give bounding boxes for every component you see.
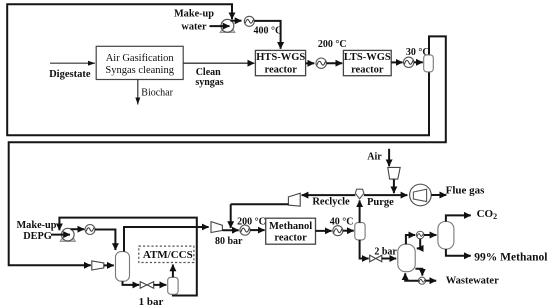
wire: make-up water inlet arrow into pump: [210, 25, 230, 27]
wire: pump outlet to heater: [231, 20, 242, 22]
svg-text:syngas: syngas: [195, 77, 223, 88]
wire: E5 to methanol reactor: [250, 229, 265, 231]
flash drum V1 (methanol separator): [355, 223, 365, 240]
distillation column C2: [398, 244, 415, 272]
svg-text:Wastewater: Wastewater: [446, 276, 499, 287]
wire: make-up DEPG inlet arrow into pump: [51, 234, 70, 236]
svg-text:400 °C: 400 °C: [254, 26, 283, 37]
flash drum V0 (water knockout): [424, 55, 434, 72]
heat exchanger E8 (reboiler): [418, 277, 425, 284]
wire: steam line into HTS reactor top: [254, 21, 280, 49]
wire: recycle junction arrow down: [230, 204, 232, 228]
svg-text:Reclycle: Reclycle: [312, 197, 350, 208]
svg-text:Make-up: Make-up: [174, 9, 214, 20]
wire: K2 outlet to exchanger E5: [222, 229, 238, 231]
svg-text:40 °C: 40 °C: [330, 217, 354, 228]
label: 40 C: [330, 217, 354, 228]
svg-text:ATM/CCS: ATM/CCS: [143, 249, 193, 261]
compressor K2 (80 bar): [211, 222, 222, 233]
svg-text:water: water: [181, 21, 207, 32]
wire: reboiler vapor return up into C2 bottom: [405, 273, 418, 281]
distillation column C3: [438, 222, 454, 250]
label: Biochar: [141, 88, 173, 99]
label: 2 bar: [374, 246, 397, 257]
absorber column C1: [116, 252, 130, 282]
heat exchanger E2 (200 C cooler): [316, 58, 326, 68]
wire: C2 overhead to condenser E7: [406, 235, 415, 244]
label: 80 bar: [215, 236, 243, 247]
svg-text:Purge: Purge: [367, 197, 394, 208]
wire: absorber bottoms to valve VL1: [123, 281, 140, 285]
wire: E3 to flash drum V0: [414, 61, 423, 63]
svg-text:200 °C: 200 °C: [318, 39, 347, 50]
wire: recycle line back to junction: [231, 203, 289, 205]
label: 30 C: [406, 47, 430, 58]
label: Flue gas: [446, 185, 486, 197]
pump P1 (make-up water pump): [220, 19, 235, 32]
wire: flue gas outlet: [431, 194, 446, 196]
wire: reactor outlet to cooler E6: [316, 230, 332, 232]
wire: LTS outlet to cooler E3: [391, 61, 402, 63]
wire: V2 overhead CO2 to ATM/CCS: [172, 265, 174, 278]
svg-text:DEPG: DEPG: [23, 231, 52, 242]
wire: valve VL1 to flash drum V2: [154, 284, 167, 286]
heat exchanger E7 (condenser): [416, 231, 424, 239]
wire: valve VL2 to distillation column C2: [382, 258, 397, 260]
svg-text:Clean: Clean: [196, 67, 221, 78]
wire: HTS outlet to cooler E2: [306, 62, 315, 64]
label: 99% Methanol: [474, 252, 547, 264]
label: Purge: [367, 197, 394, 208]
reactor box R3: Methanol reactor: [266, 218, 316, 244]
wire: clean syngas to HTS reactor: [183, 62, 254, 64]
heat exchanger E4: [85, 225, 95, 235]
svg-text:reactor: reactor: [351, 64, 384, 75]
wire: E4 outlet down into absorber top: [95, 230, 116, 251]
reactor box R1: HTS-WGS reactor: [255, 50, 305, 75]
svg-text:Flue gas: Flue gas: [446, 185, 486, 197]
wire: DEPG recycle return (drum V2 bottom, right, up, left, down to pump junction): [59, 218, 196, 296]
compressor K3 (recycle): [288, 193, 300, 206]
wire: purge line to furnace fan: [364, 194, 408, 196]
label: Make-up DEPG: [16, 220, 56, 242]
purge splitter S1 (pentagon): [355, 189, 364, 199]
label: Wastewater: [446, 276, 499, 287]
label: Make-up water: [174, 9, 214, 33]
compressor K1 (syngas feed): [92, 261, 104, 270]
svg-text:Biochar: Biochar: [141, 88, 173, 99]
svg-text:Syngas cleaning: Syngas cleaning: [105, 65, 174, 76]
svg-text:200 °C: 200 °C: [237, 217, 266, 228]
label: Air: [367, 151, 382, 162]
label: 200 C (bottom): [237, 217, 266, 228]
wire: E7 outlet to column C3: [424, 234, 436, 236]
label: Digestate: [49, 69, 91, 80]
svg-text:80 bar: 80 bar: [215, 236, 243, 247]
heat exchanger E1 (400 C heater): [244, 16, 254, 26]
wire: water recycle loop (drum bottom, down, left, up, top, down to pump junction): [7, 4, 429, 135]
wire: reflux return to C2 top: [417, 239, 420, 249]
label: 400 C: [254, 26, 283, 37]
svg-text:Methanol: Methanol: [269, 221, 312, 232]
svg-text:CO2: CO2: [477, 208, 498, 221]
wire: pump P2 outlet to exchanger E4: [71, 228, 85, 230]
wire: digestate feed arrow: [50, 62, 95, 64]
svg-text:reactor: reactor: [274, 233, 307, 244]
heat exchanger E6 (40 C): [333, 226, 343, 236]
wire: C3 bottoms 99% methanol product: [446, 249, 471, 256]
label: 1 bar: [139, 296, 164, 308]
wire: K1 outlet into absorber: [104, 264, 114, 266]
wire: syngas loop (drum top, up, right, down, left, down, to compressor): [9, 36, 446, 265]
svg-text:Digestate: Digestate: [49, 69, 91, 80]
svg-text:1 bar: 1 bar: [139, 296, 164, 308]
label: Reclycle: [312, 197, 350, 208]
svg-text:LTS-WGS: LTS-WGS: [344, 52, 391, 63]
valve VL2 (2 bar letdown): [370, 255, 382, 262]
blower B1 (combustor/fan circle): [410, 184, 432, 206]
gasifier box U1: Air Gasification Syngas cleaning: [96, 46, 183, 79]
reactor box R2: LTS-WGS reactor: [343, 50, 391, 75]
heat exchanger E3 (30 C cooler): [404, 57, 414, 67]
wire: splitter to recycle compressor: [302, 194, 356, 196]
svg-text:Air Gasification: Air Gasification: [106, 53, 175, 64]
wire: E2 to LTS reactor: [326, 62, 342, 64]
svg-text:Make-up: Make-up: [16, 220, 56, 231]
wire: K4 outlet down to purge line junction: [393, 179, 395, 193]
valve VL1 (1 bar letdown): [140, 282, 154, 289]
label: Clean syngas: [195, 67, 223, 88]
wire: absorber overhead gas to 80 bar compressor: [124, 227, 209, 252]
pump P2 (DEPG pump): [60, 228, 76, 241]
wire: V1 overhead up to purge splitter: [359, 200, 361, 222]
wire: biochar outlet arrow: [137, 80, 139, 105]
svg-text:HTS-WGS: HTS-WGS: [256, 52, 305, 63]
svg-text:99% Methanol: 99% Methanol: [474, 252, 547, 264]
heat exchanger E5 (200 C): [240, 225, 250, 235]
svg-text:2 bar: 2 bar: [374, 246, 397, 257]
compressor K4 (air, vertical): [388, 167, 400, 179]
label: 200 C (top): [318, 39, 347, 50]
wire: wastewater outlet: [426, 280, 437, 282]
label: CO2: [477, 208, 498, 221]
dashed box: ATM/CCS: [139, 246, 194, 262]
wire: air feed down into compressor K4: [388, 149, 390, 166]
flash drum V2 (DEPG regeneration): [168, 277, 178, 294]
wire: E6 to flash drum V1: [343, 230, 354, 232]
wire: V1 bottoms down to valve VL2: [360, 240, 369, 259]
wire: C2 side draw down to reboiler E8: [415, 269, 422, 276]
svg-text:reactor: reactor: [264, 64, 297, 75]
wire: C3 overhead CO2 product: [446, 215, 471, 221]
svg-text:Air: Air: [367, 151, 382, 162]
